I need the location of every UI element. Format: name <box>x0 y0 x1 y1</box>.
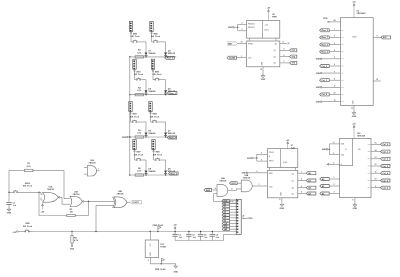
connector J2 (4-pin) <box>150 21 153 33</box>
svg-text:.1uf: .1uf <box>13 205 17 207</box>
power +5V at gate <box>41 204 45 214</box>
svg-text:1: 1 <box>334 177 335 179</box>
wire U5 pin 6 <box>329 64 340 66</box>
svg-text:1: 1 <box>259 184 260 186</box>
ground at U4 <box>261 74 266 82</box>
wire J5 pin 11 <box>230 228 237 230</box>
wire switch SW3 down to diode D6 <box>139 122 147 131</box>
wire U7 output A1 <box>298 179 307 181</box>
svg-text:GND: GND <box>280 208 285 210</box>
label U12 <box>160 244 166 249</box>
svg-text:7: 7 <box>284 61 285 63</box>
wire row bus Row_2 <box>130 136 176 138</box>
connector J7 (4-pin) <box>133 140 136 152</box>
wire +5V rail <box>33 231 236 232</box>
svg-text:10: 10 <box>334 93 336 95</box>
wire U7 GND pin <box>279 198 281 202</box>
svg-text:1N4148: 1N4148 <box>148 90 156 93</box>
switch SW3 (SW_Push) <box>130 114 140 123</box>
label U7 74HC595 <box>291 145 295 149</box>
svg-text:9: 9 <box>377 36 378 38</box>
net label Row_1 <box>167 92 177 95</box>
svg-text:.1uf: .1uf <box>192 237 196 239</box>
capacitor C5 (.1uf) <box>210 231 220 241</box>
svg-text:Col_6: Col_6 <box>382 187 388 189</box>
svg-text:Q1: Q1 <box>292 181 294 183</box>
svg-text:Row_2: Row_2 <box>169 137 176 139</box>
svg-text:SER: SER <box>206 190 211 192</box>
wire U4 output Q1 <box>280 49 290 51</box>
svg-text:Col_5: Col_5 <box>382 180 388 182</box>
svg-text:Row_1: Row_1 <box>322 37 329 39</box>
wire U5 pin 8 <box>329 78 340 80</box>
svg-text:VDD: VDD <box>122 137 127 139</box>
net label COUNT <box>130 201 142 204</box>
svg-text:CLKIN: CLKIN <box>229 57 236 59</box>
svg-text:SW_Push: SW_Push <box>151 36 161 38</box>
wire U1A second input <box>41 198 43 201</box>
svg-text:8: 8 <box>334 78 335 80</box>
IC U10 box <box>340 138 372 197</box>
wire VDD bus (left vertical) <box>129 57 131 175</box>
net label Col_2 at U5 left <box>320 93 330 96</box>
net label 1Y3 <box>290 61 297 64</box>
wire J5 pin 2 <box>230 203 237 205</box>
net label Row_2 <box>167 136 177 139</box>
net label WAIT at U4 pin 10 <box>227 42 247 46</box>
net label A2 at U10 left <box>320 192 329 195</box>
svg-text:Col_1: Col_1 <box>382 151 388 153</box>
wire cap node vertical <box>8 170 9 201</box>
svg-text:74HC238: 74HC238 <box>357 135 365 138</box>
net label Col_0 at U10 right <box>381 143 391 146</box>
svg-text:6: 6 <box>334 64 335 66</box>
resistor R6 (4.7k) <box>135 168 143 176</box>
wire switch SW4 down to LED D7 <box>159 122 166 131</box>
ground at U10 <box>353 203 358 211</box>
svg-text:PWR_FLAG: PWR_FLAG <box>153 224 164 227</box>
IC U12 box <box>145 240 159 258</box>
wire U5 pin 2 <box>329 36 340 38</box>
wire switch SW7 down to diode D8 <box>143 160 147 169</box>
svg-text:74HC00: 74HC00 <box>47 188 54 191</box>
svg-text:4: 4 <box>301 191 302 194</box>
connector J5 (4-pin) <box>129 102 132 114</box>
svg-text:Row_0: Row_0 <box>322 30 329 32</box>
wire G4 second input <box>96 205 114 231</box>
wire +5V to U10 pin A <box>327 163 340 166</box>
wire U12 bottom pin <box>148 258 176 265</box>
net label A2 at U7 right <box>306 186 316 189</box>
power port VDD (switch matrix) <box>122 136 131 139</box>
net label CLKIN at U4 left <box>227 56 237 59</box>
power port +5V at SW8 <box>12 231 21 234</box>
switch SW8 (SW_Push) <box>21 223 33 232</box>
svg-text:14: 14 <box>375 149 377 152</box>
diode D6 (1N4148) <box>145 131 157 137</box>
IC U4 upper unit box <box>247 21 280 39</box>
svg-text:Col_1: Col_1 <box>322 80 328 82</box>
wire U5 output pin to SIG label <box>373 36 381 38</box>
junction at row Row_0 <box>129 56 166 57</box>
and-gate U2A (spare) <box>87 159 96 176</box>
svg-text:24: 24 <box>334 19 336 22</box>
svg-text:WAIT: WAIT <box>228 42 234 45</box>
wire U10 output Col_0 <box>371 143 381 145</box>
LED D5 (LED-0R) <box>164 88 176 94</box>
wire from J7 to switch SW7 <box>134 152 136 160</box>
svg-text:Col_4: Col_4 <box>382 172 388 175</box>
svg-text:74HC02: 74HC02 <box>73 193 80 196</box>
ground at C1 <box>7 207 12 215</box>
wire row bus Row_0 <box>130 56 176 58</box>
svg-text:74HC08: 74HC08 <box>219 180 226 183</box>
ground pin circle at U10 enable bracket <box>322 141 340 155</box>
svg-text:3: 3 <box>334 43 335 45</box>
wire U4 unit link left <box>249 38 251 40</box>
svg-text:SW_Push: SW_Push <box>130 116 140 118</box>
resistor R8 (4.7k) <box>71 236 79 244</box>
net label Row_0 <box>165 56 175 59</box>
net label Col_5 at U10 right <box>381 179 391 182</box>
svg-text:PWR_FLAG: PWR_FLAG <box>155 268 166 271</box>
svg-text:VDD: VDD <box>228 27 233 29</box>
svg-text:Col_2: Col_2 <box>322 94 328 96</box>
xor-gate U2B <box>112 191 127 208</box>
svg-text:9: 9 <box>375 186 376 188</box>
net label CLK at J5 <box>222 222 229 225</box>
junction at row Row_2 <box>129 136 166 137</box>
svg-text:.1uf: .1uf <box>178 237 182 239</box>
wire row bus Row_1 <box>130 94 176 96</box>
label U5 74HC4067 <box>357 11 366 16</box>
svg-text:2: 2 <box>334 184 335 186</box>
ground pin circle at U5 left <box>316 71 341 75</box>
connector J6 (4-pin) <box>149 102 152 114</box>
svg-text:7: 7 <box>334 71 335 73</box>
net label A0 at U10 left <box>320 178 329 181</box>
nor-gate U1B <box>70 192 84 207</box>
svg-text:9: 9 <box>334 86 335 88</box>
wire U5 pin 4 <box>329 49 340 52</box>
svg-text:Row_2: Row_2 <box>322 44 329 46</box>
svg-text:15: 15 <box>376 79 378 81</box>
svg-text:SIG: SIG <box>383 37 387 39</box>
svg-text:SW_Push: SW_Push <box>23 226 33 228</box>
svg-text:GND: GND <box>261 79 266 81</box>
svg-text:2: 2 <box>301 179 302 181</box>
wire U10 GND pin <box>352 198 354 203</box>
wire U6A input B from Serial bus <box>214 194 223 202</box>
wire J5 pin 8 <box>230 220 237 222</box>
svg-text:5: 5 <box>333 153 334 155</box>
wire U2B output to COUNT label <box>127 201 130 203</box>
wire R8 bottom to GND circle <box>70 243 75 250</box>
svg-text:(X)v5: (X)v5 <box>265 30 269 32</box>
wire U7 output A0 <box>298 171 307 173</box>
svg-text:2: 2 <box>242 23 243 25</box>
svg-text:12: 12 <box>351 108 353 110</box>
power port VDD at U5 <box>323 18 340 23</box>
connector J4 (4-pin) <box>151 59 154 71</box>
diode D8 (1N4148) <box>145 169 157 175</box>
svg-text:12: 12 <box>375 164 377 166</box>
IC U4 lower unit box <box>247 41 280 67</box>
and-gate U6A <box>217 177 228 196</box>
switch SW7 (SW_Push) <box>134 152 144 161</box>
svg-text:Q3: Q3 <box>274 63 276 65</box>
wire J5 pin 5 <box>230 211 237 213</box>
wire U10 output Col_5 <box>371 179 381 181</box>
net label D2 at J5 <box>222 208 229 211</box>
resistor R2 (1M) <box>67 209 75 217</box>
capacitor C4 (.1uf) <box>198 231 208 241</box>
switch SW2 (SW_Push) <box>152 71 162 80</box>
svg-text:LED-0R: LED-0R <box>168 53 176 55</box>
net label Row_0 at U5 left <box>320 29 330 32</box>
svg-text:2: 2 <box>334 36 335 38</box>
wire U4 pin 1 <box>237 56 247 58</box>
svg-text:RCK: RCK <box>231 183 236 185</box>
svg-text:SW10: SW10 <box>25 183 31 185</box>
net label D0 at J5 <box>222 202 229 205</box>
wire U10 output Col_4 <box>371 171 381 173</box>
net label A1 at U7 right <box>306 179 316 182</box>
resistor R1 (4.7k) <box>25 163 33 171</box>
net label SER at J5 <box>222 228 229 231</box>
svg-text:SW_Push: SW_Push <box>153 154 163 156</box>
svg-text:Row_3: Row_3 <box>322 51 329 53</box>
svg-text:4: 4 <box>283 41 284 44</box>
svg-text:4: 4 <box>333 141 334 144</box>
net label A0 at U7 right <box>306 172 316 175</box>
PWR_FLAG top <box>153 224 164 232</box>
switch SW5 (SW_Push) <box>130 34 140 43</box>
connector J1 (4-pin) <box>129 21 132 33</box>
ground pin circle at U5 left <box>316 100 341 104</box>
svg-text:1M: 1M <box>70 212 73 214</box>
net label 1Y1 <box>290 49 297 52</box>
wire U10 input A1 <box>329 184 339 186</box>
svg-text:10: 10 <box>241 42 243 44</box>
ground pin circle at U7 pin 2 <box>242 171 268 175</box>
PWR_FLAG bottom <box>155 258 166 271</box>
svg-text:74HC08: 74HC08 <box>89 161 96 164</box>
svg-text:SW_Push: SW_Push <box>134 74 144 76</box>
wire U10 output Col_2 <box>371 157 381 159</box>
svg-text:.1uf: .1uf <box>216 237 220 239</box>
wire to U6B input <box>237 182 241 184</box>
wire R8 top <box>71 232 73 236</box>
wire from J8 to switch SW9 <box>153 152 155 160</box>
wire U12 top pin <box>149 232 151 241</box>
svg-text:5: 5 <box>284 49 285 51</box>
svg-text:Row_1: Row_1 <box>169 93 176 95</box>
ground pin circle at U5 left <box>316 57 341 61</box>
capacitor C3 (.1uf) <box>186 231 196 241</box>
wire U1A output to U1B <box>60 197 70 204</box>
connector J8 (4-pin) <box>152 140 155 152</box>
svg-text:1N4148: 1N4148 <box>148 132 156 135</box>
svg-text:1: 1 <box>98 169 99 171</box>
wire R1 to feedback node <box>33 169 64 171</box>
wire J5 pin 10 <box>230 225 237 227</box>
feedback loop wire to R2 <box>39 192 89 215</box>
svg-text:+5V: +5V <box>12 232 16 234</box>
junction at row Row_3 <box>129 174 166 175</box>
wire U10 output Col_3 <box>371 164 381 166</box>
ground pin circle at U5 left <box>316 86 341 90</box>
power port VDD at U7 <box>247 153 267 162</box>
net label Col_4 at U10 right <box>381 172 391 175</box>
svg-text:Q0: Q0 <box>292 174 294 176</box>
wire U7 output A3 <box>298 191 307 194</box>
net label D3 at J5 <box>222 211 229 214</box>
svg-text:GND: GND <box>70 248 75 250</box>
wire from J2 to switch SW6 <box>151 34 153 42</box>
wire U10 output Col_1 <box>371 149 381 152</box>
net label SIG at U5 right <box>381 36 391 39</box>
wire switch SW6 down to LED D2 <box>160 42 166 51</box>
svg-text:+1/2: +1/2 <box>265 25 268 27</box>
svg-text:11: 11 <box>375 171 377 173</box>
wire from J3 to switch SW1 <box>134 71 136 79</box>
ground at U12 <box>173 264 178 274</box>
svg-text:6: 6 <box>333 163 334 165</box>
ground at U7 <box>280 202 285 210</box>
wire from J1 to switch SW5 <box>130 34 132 42</box>
LED D9 (LED-0R) <box>164 169 176 175</box>
svg-text:SW_Push: SW_Push <box>130 36 140 38</box>
svg-text:3: 3 <box>334 192 335 194</box>
switch SW10 (SW_Push) <box>10 183 33 193</box>
wire from J6 to switch SW4 <box>150 114 152 122</box>
net label RCK at U6B input <box>230 182 238 185</box>
svg-text:1: 1 <box>301 171 302 173</box>
wire U5 pin 10 <box>329 93 340 95</box>
wire U6A output <box>228 189 237 191</box>
svg-text:VDD: VDD <box>247 158 252 160</box>
switch SW6 (SW_Push) <box>151 34 161 43</box>
wire U4 pin 4A stub <box>280 41 287 44</box>
no-connect cross at U4 pin 4A <box>288 42 290 44</box>
svg-text:LED-0R: LED-0R <box>168 133 176 135</box>
svg-text:Row_0: Row_0 <box>167 58 174 60</box>
svg-text:PB7(X1): PB7(X1) <box>248 27 255 29</box>
svg-text:GND: GND <box>316 73 321 75</box>
wire U7 output A2 <box>298 186 307 188</box>
net label Col_6 at U10 right <box>381 186 391 189</box>
net label D6 at J5 <box>222 219 229 222</box>
wire U10 input A0 <box>329 177 339 179</box>
svg-text:3: 3 <box>261 159 262 161</box>
svg-text:SW_Push: SW_Push <box>134 154 144 156</box>
net label D5 at J5 <box>222 217 229 220</box>
net label Col_2 at U10 right <box>381 157 391 160</box>
wire switch SW9 down to LED D9 <box>162 160 166 169</box>
wire U10 output Col_6 <box>371 186 381 188</box>
pin name marks inside U10 <box>368 144 371 187</box>
net label Col_1 at U10 right <box>381 150 391 153</box>
switch SW1 (SW_Push) <box>134 71 144 80</box>
power +5V at U7 <box>286 140 290 149</box>
switch SW9 (SW_Push) <box>153 152 163 161</box>
connector J3 (4-pin) <box>133 59 136 71</box>
svg-text:SW_Push: SW_Push <box>150 116 160 118</box>
svg-text:STRB: STRB <box>248 43 253 45</box>
svg-text:THGM: THGM <box>160 247 166 249</box>
wire U5 pin 1 <box>329 29 340 31</box>
svg-text:8: 8 <box>279 199 280 201</box>
svg-text:SW_Push: SW_Push <box>23 186 33 188</box>
nand-gate U1A <box>43 185 60 202</box>
net label Row_1 at U5 left <box>320 36 330 39</box>
svg-text:Col_3: Col_3 <box>382 166 388 168</box>
net label box at U4 pin 1 <box>0 0 1 1</box>
junction at row Row_1 <box>129 94 166 95</box>
resistor R4 (4.7k) <box>135 87 143 96</box>
wire U7 unit link left <box>269 168 271 171</box>
resistor R5 (4.7k) <box>135 130 143 138</box>
and-gate U6B <box>241 175 252 192</box>
svg-text:PRG2: PRG2 <box>269 152 274 154</box>
svg-text:GND: GND <box>316 59 321 61</box>
wire capacitor ground rail <box>175 235 236 241</box>
svg-text:Q1: Q1 <box>274 50 276 52</box>
wire U7 unit link right <box>295 168 297 171</box>
svg-text:GND: GND <box>322 149 327 151</box>
power +5V at rail <box>173 225 177 232</box>
net label RCK at J5 <box>222 225 229 228</box>
svg-text:5: 5 <box>334 57 335 59</box>
net label Row_3 at U5 left <box>320 50 330 53</box>
svg-text:74HC08: 74HC08 <box>243 177 250 180</box>
net label Col_3 at U10 right <box>381 165 391 168</box>
svg-text:GND: GND <box>7 213 12 215</box>
power port VDD at U4 pins 2,3 <box>228 23 247 32</box>
wire U10 input A2 <box>329 192 339 194</box>
wire feedback vertical <box>64 170 70 198</box>
IC U7 lower unit box <box>267 170 297 198</box>
svg-text:1N4148: 1N4148 <box>148 170 156 173</box>
svg-text:2: 2 <box>257 171 258 173</box>
svg-text:13: 13 <box>375 157 377 159</box>
diode D1 (1N4148) <box>145 51 157 57</box>
wire U4 output Q3 <box>280 61 290 63</box>
IC U7 upper unit box <box>267 149 297 168</box>
wire U1B output <box>84 201 115 202</box>
svg-text:74HC86: 74HC86 <box>117 192 124 195</box>
svg-text:GND: GND <box>353 208 358 210</box>
net label D1 at J5 <box>222 205 229 208</box>
svg-text:6: 6 <box>284 55 285 57</box>
svg-text:VDD: VDD <box>323 18 328 20</box>
wire U4 GND pin 10 <box>260 67 263 74</box>
svg-text:Serial_PRG: Serial_PRG <box>242 218 253 220</box>
svg-text:Col_0: Col_0 <box>322 66 328 68</box>
svg-text:Row_3: Row_3 <box>171 173 178 175</box>
wire J5 pin 6 <box>230 214 237 216</box>
label U10 74HC238 <box>357 133 365 138</box>
net label Row_3 <box>169 172 179 175</box>
connector J5 box <box>236 199 241 234</box>
svg-text:8: 8 <box>352 199 353 201</box>
svg-text:11: 11 <box>334 100 336 102</box>
switch SW4 (SW_Push) <box>150 113 160 123</box>
svg-text:10: 10 <box>375 179 377 181</box>
svg-text:3: 3 <box>301 186 302 188</box>
wire U4 output Q2 <box>280 55 290 57</box>
